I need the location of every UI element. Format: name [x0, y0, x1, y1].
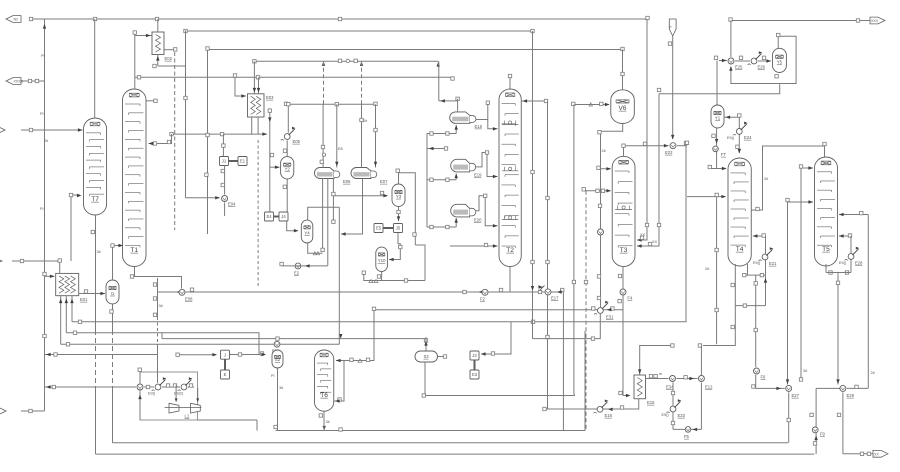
wire Y4 top loop — [308, 207, 340, 220]
inlet flag y261 to E01 — [0, 258, 2, 265]
wire compressor suction y354.5 — [45, 354, 158, 356]
wire E03 top feeds — [253, 61, 255, 94]
svg-text:N2: N2 — [14, 18, 19, 22]
valve E17 — [545, 289, 551, 295]
column T5 — [815, 157, 838, 266]
svg-text:E9(): E9() — [727, 136, 735, 140]
vessel Y1 — [711, 105, 724, 128]
wire S2 feed — [230, 354, 265, 356]
pump E22 — [670, 143, 676, 149]
svg-text:E9(): E9() — [662, 413, 670, 417]
instrument J3 — [470, 351, 479, 360]
wire E27 bottom — [788, 392, 790, 442]
drum E20 — [451, 204, 470, 217]
wire F6 line — [755, 275, 757, 367]
wire L1 outlet to J block — [178, 354, 216, 356]
svg-text:E12: E12 — [705, 385, 713, 390]
wire E01 bottom utility lines — [60, 296, 62, 345]
wire Y1 right line — [724, 116, 740, 118]
wire E15 top feed — [640, 346, 673, 376]
wire T1 side feed header y134.1 — [172, 133, 268, 135]
column T1 — [123, 89, 147, 267]
wire K1 top stub — [139, 372, 141, 383]
wire T5 right return — [839, 235, 851, 237]
svg-text:F9: F9 — [820, 432, 826, 437]
instrument J4 — [279, 212, 288, 221]
wire E01 left feed — [45, 275, 55, 277]
svg-text:E9(): E9() — [753, 261, 761, 265]
svg-text:E3: E3 — [472, 372, 478, 377]
outlet flag y20.5 — [870, 17, 885, 24]
pump F6 — [754, 368, 760, 374]
wire manifold inlet y148.5 — [427, 148, 446, 150]
svg-text:E08: E08 — [185, 297, 193, 302]
vessel Y5 — [773, 48, 787, 72]
valve E26 — [751, 58, 757, 64]
instrument E5 — [374, 224, 383, 233]
outlet flag bottom right — [873, 450, 888, 457]
wire header y321.8 — [72, 143, 686, 322]
pump E34 — [670, 376, 676, 382]
compressor package frame L1 — [140, 372, 198, 420]
wire T3 right returns — [637, 19, 647, 240]
column T4 — [728, 158, 751, 266]
valve E33 — [670, 406, 676, 412]
wire E01 to I1 — [79, 293, 105, 295]
svg-text:E03: E03 — [266, 95, 274, 100]
svg-text:E26: E26 — [758, 65, 766, 70]
wire F7 to T4 feed — [710, 168, 726, 170]
wire E34 to E12 — [676, 378, 697, 380]
wire E18 top line to header x438.8 — [438, 61, 440, 101]
svg-text:J4: J4 — [281, 214, 286, 219]
svg-text:E15: E15 — [647, 400, 655, 405]
svg-text:S3: S3 — [423, 354, 429, 359]
pump F7 — [713, 146, 719, 152]
heat exchanger E02 — [152, 32, 164, 55]
wire T2 right feed — [521, 100, 547, 102]
inlet flag y130 to T7 — [0, 127, 5, 134]
svg-text:F6: F6 — [761, 375, 767, 380]
wire top-right product line y20.5 — [731, 20, 871, 22]
wire T3 overhead to E22 — [624, 146, 669, 157]
svg-text:XX: XX — [640, 233, 646, 237]
wire E07 feeds — [361, 61, 363, 104]
svg-text:E04: E04 — [228, 202, 236, 207]
pump E08 — [179, 289, 185, 295]
svg-text:PI: PI — [41, 54, 45, 58]
wire x600.5 down to valve E31 — [600, 169, 602, 307]
wire E29 left line — [816, 387, 838, 389]
wire E04 feed from x186 — [186, 197, 220, 199]
valve E05 — [284, 134, 290, 140]
svg-text:E16: E16 — [605, 413, 613, 418]
drum E18 — [450, 112, 470, 123]
svg-text:F4: F4 — [627, 296, 633, 301]
wire E12 top feed — [700, 346, 702, 376]
wire header y310 — [374, 309, 623, 311]
wire header y61.3 — [254, 60, 438, 62]
wire inlet arrow y81 — [6, 78, 21, 85]
svg-text:F2: F2 — [480, 297, 486, 302]
wire S3 right sq — [438, 356, 446, 358]
svg-text:L1: L1 — [185, 414, 190, 419]
svg-text:E1: E1 — [240, 159, 246, 164]
wire T4 bottoms — [703, 264, 735, 346]
vessel Y10 — [376, 247, 388, 271]
wire I1 top stub — [113, 246, 123, 281]
wire utility vertical x207.5 — [207, 50, 209, 235]
drum E07 — [351, 168, 371, 179]
pump E3 — [274, 341, 280, 347]
svg-text:E05: E05 — [293, 139, 301, 144]
wire bottom header y454 — [96, 453, 815, 455]
svg-text:PI: PI — [40, 112, 44, 116]
svg-text:J5: J5 — [396, 226, 401, 231]
svg-text:XXXB: XXXB — [14, 80, 24, 84]
svg-text:E28: E28 — [855, 261, 863, 266]
svg-text:E31: E31 — [606, 315, 614, 320]
wire T2 bottom — [509, 267, 511, 293]
svg-text:E25: E25 — [735, 65, 743, 70]
wire E29 right — [847, 387, 868, 389]
wire E25 to E26 to Y5 — [735, 60, 750, 62]
drum E19 — [451, 159, 470, 172]
wire T7 riser — [94, 19, 96, 118]
wire E2 line — [282, 265, 328, 267]
svg-text:E33: E33 — [678, 413, 686, 418]
vessel I1 — [106, 280, 119, 304]
column T7 — [84, 118, 107, 215]
drum E06 — [315, 168, 335, 179]
heat exchanger E01 — [56, 273, 79, 295]
svg-text:E17: E17 — [551, 296, 559, 301]
inlet flag y19 — [6, 16, 21, 23]
svg-text:PI: PI — [271, 374, 275, 378]
svg-text:PI: PI — [40, 207, 44, 211]
wire T4 reboiler draw — [747, 264, 749, 275]
wire x787.5 vertical to E27 — [787, 202, 789, 385]
wire T4 lower feed from x687 — [687, 196, 726, 198]
wire V6 bottoms to T3 — [601, 124, 623, 169]
svg-text:E9(): E9() — [839, 261, 847, 265]
wire utility vertical x174 dashed — [174, 52, 176, 230]
vessel Y4 — [301, 220, 313, 243]
vessel S2 — [272, 350, 283, 368]
svg-text:XX: XX — [652, 240, 658, 244]
svg-text:E9(): E9() — [148, 392, 156, 396]
column T6 — [315, 350, 334, 411]
wire T7 bottoms — [95, 215, 97, 330]
vessel V6 — [611, 90, 635, 124]
wire E03 bottom outlet — [251, 117, 253, 134]
wire E02 right nozzle — [163, 49, 174, 51]
wire E05 to Y2 — [286, 140, 288, 156]
wire drum bottom feed manifold x427 — [426, 134, 428, 228]
wire T3 bottoms — [622, 266, 624, 396]
wire jog to Y10 loop — [415, 245, 425, 281]
instrument E1 — [238, 157, 247, 166]
heat exchanger E03 — [248, 94, 265, 117]
wire T1 top nozzle — [146, 100, 154, 102]
svg-text:F5: F5 — [684, 434, 690, 439]
svg-text:S2: S2 — [275, 357, 281, 362]
wire E08 left header x157 — [157, 278, 159, 317]
pump F5 — [685, 427, 691, 433]
wire compressor line y387 — [45, 386, 136, 388]
wire J5 to Y10 — [389, 233, 400, 260]
svg-text:E5: E5 — [376, 226, 382, 231]
wire x157.5 drop — [157, 355, 159, 384]
wire E06 loop header y104.2 — [286, 103, 376, 105]
wire x801 vertical — [800, 168, 802, 380]
wire T4 recirc — [735, 305, 765, 307]
valve E16 — [597, 406, 603, 412]
wire T1 bottom to pump E08 — [135, 267, 182, 289]
wire Y10 bottom loop — [364, 272, 382, 281]
wire E02 feed stub — [135, 35, 152, 37]
instrument J5 — [394, 224, 403, 233]
valve E28 — [848, 254, 854, 260]
wire Y5 loop — [731, 36, 796, 83]
pump F8 — [598, 229, 604, 235]
wire Y4 bottom loop — [308, 243, 323, 253]
wire T1 riser to E02 — [134, 33, 136, 90]
wire T5 left feeds — [801, 167, 813, 169]
svg-text:m: m — [659, 372, 662, 376]
junction E27 — [786, 385, 792, 391]
valve E31 — [598, 308, 604, 314]
svg-text:E24: E24 — [744, 135, 752, 140]
instrument J6 — [221, 350, 230, 359]
wire header y332.7 — [66, 333, 259, 355]
svg-text:E01: E01 — [80, 297, 88, 302]
pump K1 — [137, 384, 143, 390]
wire vertical x547.5 — [547, 101, 549, 409]
wire left margin vertical x44.5 — [44, 19, 46, 411]
pump F2 — [482, 289, 488, 295]
wire Y3 bottom to J5 — [398, 207, 400, 222]
wire E02 bottom to header — [158, 65, 186, 67]
vessel Y3 — [392, 184, 405, 207]
instrument J1 — [220, 157, 229, 166]
pump F4 — [620, 289, 626, 295]
svg-text:E27: E27 — [792, 393, 800, 398]
wire E04 discharge — [224, 203, 226, 217]
svg-text:E19: E19 — [474, 172, 482, 177]
svg-text:Y3: Y3 — [396, 194, 402, 199]
inlet down-flag x672.7 — [669, 19, 676, 36]
pump E25 — [728, 58, 734, 64]
wire T6 top feed — [336, 310, 374, 360]
wire J1 riser from header — [222, 134, 224, 156]
wire dashed vertical x586 — [585, 191, 587, 431]
wire E22 discharge — [677, 145, 687, 147]
svg-text:E06: E06 — [343, 179, 351, 184]
wire J4 to Y4 feed — [287, 221, 298, 231]
wire T6 bottoms — [323, 411, 325, 430]
valve E21b — [762, 254, 768, 260]
svg-text:Y10: Y10 — [378, 258, 386, 263]
wire header y338.6 right — [533, 314, 601, 339]
wire E19 to T2 — [475, 153, 498, 177]
svg-text:E22: E22 — [665, 150, 673, 155]
svg-text:E8: E8 — [338, 147, 343, 151]
wire x816 vertical with F9 — [815, 388, 817, 454]
wire T6 right loop — [334, 361, 344, 402]
wire Y3 top to Y10 right header — [399, 173, 416, 245]
wire E06 bottoms — [322, 179, 324, 251]
instrument E3 — [470, 370, 479, 379]
svg-text:FT: FT — [721, 152, 727, 157]
instrument E4 — [265, 212, 274, 221]
wire header y77.3 — [135, 76, 453, 78]
wire header y49.5 — [208, 49, 623, 51]
wire T4 right return — [753, 235, 766, 237]
wire S2 bottom — [277, 368, 279, 431]
wire E06 to Y3 — [333, 179, 387, 196]
wire x185.5 vertical — [185, 31, 187, 198]
wire header y344.3 — [61, 343, 340, 345]
wire T1 right feed — [149, 134, 172, 143]
wire E05 top from loop — [287, 104, 289, 132]
wire x339 vertical — [338, 207, 340, 344]
wire E06 feeds — [323, 61, 325, 104]
wire bottom header y442.8 — [112, 442, 788, 444]
wire T5 bottoms — [825, 264, 827, 273]
wire E34 down through E33 — [672, 383, 674, 430]
wire S3 top from header — [425, 337, 427, 351]
svg-text:J3: J3 — [472, 353, 477, 358]
pump F9 — [812, 427, 818, 433]
wire V6 left feed — [573, 104, 609, 106]
wire E07 bottoms to x339 vertical — [341, 179, 363, 235]
svg-text:I1: I1 — [111, 291, 115, 296]
wire F5 line — [673, 428, 701, 430]
wire E02 top — [157, 19, 159, 32]
valve K2 — [155, 384, 161, 390]
pump E12 — [698, 376, 704, 382]
wire Y1 bottom to F7 — [716, 128, 718, 169]
compressor C1 — [169, 403, 179, 413]
wire V6 riser — [622, 50, 624, 90]
wire vertical x573.9 — [573, 105, 575, 395]
wire header y338.6 to S3 — [162, 338, 426, 340]
column T2 — [499, 89, 521, 267]
wire E03 left feed — [235, 76, 246, 97]
wire E25 suction — [719, 60, 727, 62]
wire E25 top — [730, 21, 732, 58]
svg-text:E9(2): E9(2) — [174, 392, 184, 396]
vessel Y2 — [281, 157, 294, 179]
column T3 — [612, 156, 635, 266]
wire drop x563.4 — [562, 292, 564, 431]
svg-text:Y2: Y2 — [285, 166, 291, 171]
svg-text:E29: E29 — [847, 393, 855, 398]
svg-text:XX: XX — [874, 452, 879, 456]
wire T5 right side inlet — [839, 214, 868, 216]
vessel S3 horizontal — [415, 351, 438, 362]
valve E24 — [736, 129, 742, 135]
svg-text:E07: E07 — [380, 179, 388, 184]
svg-text:E: E — [224, 372, 227, 377]
wire bottoms header y292 — [157, 291, 562, 293]
wire T7 side nozzle — [71, 195, 80, 261]
svg-text:E2: E2 — [294, 271, 300, 276]
wire E27 left line — [756, 387, 785, 389]
wire E29 bottom to flag — [842, 392, 844, 453]
compressor C2 — [191, 403, 201, 413]
wire compressor shaft line — [165, 407, 202, 409]
wire T2 left lower feed — [450, 245, 498, 247]
wire I1 bottom — [112, 304, 114, 330]
wire J1 to E04 — [224, 166, 226, 195]
svg-text:J: J — [224, 352, 226, 357]
svg-text:XXX: XXX — [871, 19, 879, 23]
wire E15 bottom to E16 line — [545, 399, 639, 409]
wire bottom-left inlet y411 — [21, 410, 45, 412]
pump E2 — [295, 263, 301, 269]
heat exchanger E15 — [634, 375, 646, 399]
svg-text:Y5: Y5 — [777, 59, 783, 64]
valve K3 — [181, 384, 187, 390]
wire line y420 to T6 header — [198, 419, 258, 421]
wire Y1 riser — [716, 61, 718, 106]
wire E15 right to pumps — [646, 378, 669, 380]
wire E03 right nozzle down to Y2 — [269, 111, 271, 212]
wire T4 upper-right to T5 transfer — [751, 146, 824, 210]
svg-text:Y1: Y1 — [715, 115, 721, 120]
svg-text:E02: E02 — [165, 56, 173, 61]
pump E04 — [222, 196, 228, 202]
svg-text:E20: E20 — [474, 217, 482, 222]
wire E18 to T2 — [476, 119, 488, 121]
wire compressor internal line — [144, 386, 154, 388]
wire bottom header y430.5 — [276, 331, 585, 431]
svg-text:J1: J1 — [222, 159, 227, 164]
wire vertical x532.5 — [532, 31, 534, 339]
svg-text:E21: E21 — [769, 261, 777, 266]
wire T2 riser stub — [509, 76, 511, 89]
junction E29 — [840, 385, 846, 391]
svg-text:E18: E18 — [475, 124, 483, 129]
wire E24 riser to T4 top — [738, 117, 740, 153]
wire S3 bottom line — [425, 362, 575, 396]
wire T3 left feed — [584, 190, 611, 192]
svg-text:E4: E4 — [266, 214, 272, 219]
wire E20 to T2 — [475, 196, 498, 226]
wire J3 feed — [481, 322, 511, 354]
wire header y93.8 to Y5 area — [659, 84, 780, 94]
wire E15 left feed from T3 bottoms — [623, 395, 630, 397]
wire x716.6 down to header — [716, 197, 718, 345]
inlet flag y411 — [0, 408, 6, 415]
wire header y31 — [186, 30, 533, 32]
wire K1 suction from frame bottom — [139, 392, 141, 420]
wire Y2 bottom — [286, 179, 288, 216]
wire main header y19 — [31, 18, 648, 20]
svg-text:Y4: Y4 — [304, 230, 310, 235]
